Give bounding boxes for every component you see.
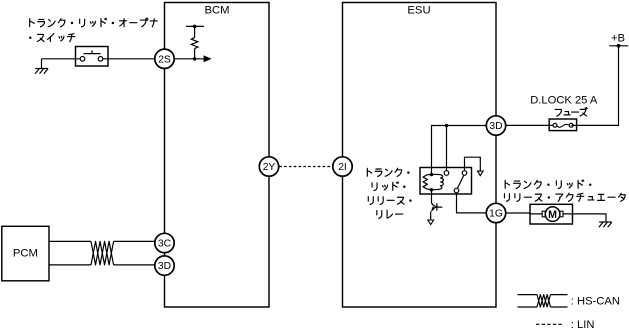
svg-text:D.LOCK 25 A: D.LOCK 25 A [530,94,598,106]
relay coil [423,173,443,192]
ESU module box [343,3,497,308]
svg-text:: HS-CAN: : HS-CAN [571,296,620,308]
relay coil low side: driver arrow + cross, to ground arrow [428,190,443,225]
label: trunk lid release actuator (katakana) [504,180,625,201]
svg-text:: LIN: : LIN [571,319,595,330]
svg-text:M: M [548,209,557,221]
+B battery feed [609,33,628,48]
svg-text:ESU: ESU [407,4,430,16]
wire: twist to 3C [114,240,155,242]
fuse F1: D.LOCK 25A [549,119,576,131]
PCM module box [2,226,49,280]
junction dot at resistor/input node [193,57,197,61]
junction dot on 3D feed [445,124,449,128]
connector 3D (BCM side) [155,256,174,275]
connector 2S [155,49,174,68]
connector 3C [155,233,174,252]
wire: 3D to fuse [506,124,554,126]
svg-text:3C: 3C [158,239,172,250]
relay switch contacts [444,171,467,193]
wire: PCM to 3D (HS-CAN low) [49,264,91,266]
connector 2Y [259,157,278,176]
connector 1G [486,203,505,222]
svg-text:1G: 1G [489,209,503,220]
svg-text:3D: 3D [489,121,502,132]
wire: relay common to 1G [457,193,487,213]
wire: ground to switch [42,58,81,60]
twisted pair symbol (HS-CAN) [91,241,114,265]
resistor R (pull-up) with supply bar [186,25,204,59]
svg-text:3D: 3D [158,261,171,272]
legend: LIN dashed symbol [536,323,564,325]
wire: fuse to +B [572,46,619,126]
actuator M1: trunk lid release actuator (motor) [530,204,573,224]
wire: 1G to actuator [506,212,530,214]
label: trunk lid release relay (katakana) [367,168,411,218]
svg-text:2I: 2I [338,162,347,173]
ground G2 (actuator) [599,222,612,227]
input arrow (BCM internal) [204,55,212,62]
svg-text:BCM: BCM [204,4,229,16]
wire: relay NO contact to arrow (accessory feed) [465,157,481,171]
svg-text:+B: +B [611,33,625,45]
svg-text:2S: 2S [158,54,171,65]
switch SW1: trunk lid opener switch [76,47,109,67]
legend: HS-CAN twisted pair symbol [518,295,568,307]
wire: switch to connector 2S [103,58,155,60]
wire: 3D(ESU) to relay branch [432,126,487,174]
wire: actuator to ground [573,214,607,222]
label: trunk lid opener switch (katakana) [29,18,157,41]
BCM module box [165,3,270,308]
connector 3D (ESU side) [486,116,505,135]
connector 2I [333,157,352,176]
wire: LIN bus 2Y to 2I (dashed) [279,166,332,168]
wire: PCM to 3C (HS-CAN high) [49,240,91,242]
wire: 2S to BCM internal input [174,58,203,60]
wire: branch to relay switch terminal [446,126,448,171]
wire: twist to 3D [114,264,155,266]
svg-text:2Y: 2Y [263,162,276,173]
label: D.LOCK 25 A fuse [530,94,598,116]
relay box: trunk lid release relay [420,168,472,195]
svg-text:PCM: PCM [13,247,38,259]
open arrow (continues) [478,171,484,175]
ground G1 (switch side) [35,59,48,74]
